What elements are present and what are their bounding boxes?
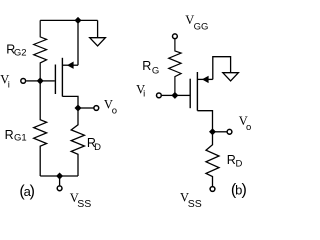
terminal Vo (b) [227,129,232,134]
terminal VGG [173,34,178,39]
label RG1 [5,128,27,144]
transistor M1 source lead [62,64,78,66]
svg-text:G2: G2 [14,48,27,59]
transistor M1 drain lead [62,96,78,108]
wire source to rail (a) [77,20,79,65]
label Vi (a) [0,73,10,91]
wire Vi to gate node (b) [162,94,175,96]
transistor M2 gate bar [189,79,191,109]
resistor RD (b) [206,132,219,186]
svg-text:GG: GG [194,21,209,32]
wire Vo (a) [78,107,94,109]
svg-text:(a): (a) [19,183,35,200]
wire Vi to gate node (a) [26,80,40,82]
svg-text:R: R [5,128,14,142]
label Vi (b) [136,82,145,99]
wire source to ground (b) [213,57,231,80]
label Vo (a) [104,98,117,117]
junction VSS node (a) [56,173,63,180]
label (b) [231,182,247,199]
resistor RG1 [34,81,47,176]
wire VSS stub (a) [59,176,61,185]
svg-text:G: G [152,65,159,76]
label Vo (b) [239,114,252,133]
wire bottom rail (a) [40,175,78,177]
transistor M1 gate bar [54,65,56,95]
terminal Vi (a) [21,79,26,84]
transistor M2 channel bar [196,72,198,111]
label VSS (a) [70,191,92,210]
terminal Vo (a) [94,106,99,111]
transistor M2 drain lead [197,111,212,132]
svg-text:D: D [94,142,101,153]
junction gate node (b) [171,92,178,99]
svg-text:SS: SS [77,198,91,209]
svg-text:G1: G1 [14,132,27,143]
transistor M1 source arrow [67,62,74,69]
label VSS (b) [180,191,202,211]
svg-text:R: R [227,153,236,167]
svg-text:(b): (b) [231,182,247,199]
svg-text:R: R [142,59,151,73]
terminal VSS (a) [57,186,62,191]
svg-text:i: i [143,89,145,100]
label RD (a) [87,136,101,153]
terminal Vi (b) [157,93,162,98]
wire Vo (b) [213,131,227,133]
label RG2 [6,42,26,58]
junction node Vo (a) [75,105,82,112]
svg-text:SS: SS [188,198,202,209]
ground (a) [90,20,106,46]
svg-text:D: D [236,158,243,169]
label RD (b) [227,153,243,170]
ground (b) [223,73,239,81]
svg-text:i: i [8,79,10,90]
terminal VSS (b) [210,187,215,192]
resistor RG2 [34,20,47,81]
wire gate node to gate (a) [40,80,55,82]
label VGG [185,13,208,32]
svg-text:o: o [112,105,117,116]
junction node Vo (b) [209,128,216,135]
wire top rail (a) [40,19,97,21]
svg-text:o: o [246,122,251,133]
wire gate node to gate (b) [175,94,190,96]
label RG (b) [142,59,159,77]
transistor M2 source lead [197,78,212,80]
label (a) [19,183,35,200]
junction gate node (a) [37,77,44,84]
resistor RG (b) [169,39,181,95]
transistor M2 source arrow [202,76,209,83]
resistor RD (a) [71,108,84,176]
transistor M1 channel bar [61,58,63,97]
junction drain-to-rail (a) [75,17,82,24]
